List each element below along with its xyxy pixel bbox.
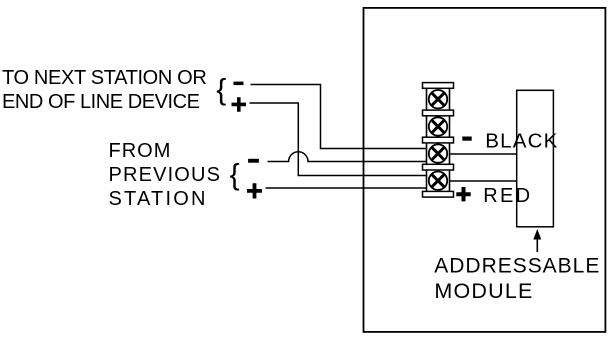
polarity plus (to next station) (232, 97, 247, 112)
arrow pointing to module (533, 229, 541, 252)
polarity minus (to next station) (234, 82, 244, 86)
svg-text:STATION: STATION (109, 188, 208, 210)
terminal block body 4 (427, 167, 450, 193)
svg-text:MODULE: MODULE (434, 279, 533, 303)
wire: from-previous plus -> terminal 4 (lower) (266, 187, 439, 189)
terminal block body 1 (427, 86, 450, 112)
svg-text:ADDRESSABLE: ADDRESSABLE (434, 254, 600, 277)
svg-text:PREVIOUS: PREVIOUS (109, 164, 222, 186)
terminal screw 1 (429, 90, 447, 108)
wire: to-next minus -> terminal 3 (upper) (251, 85, 439, 149)
polarity plus at terminal 4 (RED) (456, 187, 470, 201)
terminal separator bar 4 (423, 164, 454, 170)
terminal separator bar 1 (423, 83, 454, 89)
svg-text:RED: RED (483, 185, 532, 207)
svg-text:{: { (216, 74, 226, 107)
terminal screw 2 (429, 117, 447, 135)
terminal block body 3 (427, 140, 450, 166)
terminal separator bar 3 (423, 137, 454, 143)
svg-text:{: { (230, 158, 240, 191)
polarity minus (from previous) (248, 159, 259, 163)
svg-text:FROM: FROM (109, 140, 172, 162)
svg-text:BLACK: BLACK (485, 130, 558, 153)
wire: from-previous minus with hop over vertical -> terminal 3 (lower) (268, 152, 439, 162)
terminal screw 3 (429, 144, 447, 162)
terminal separator bar 2 (423, 110, 454, 116)
svg-text:END OF LINE DEVICE: END OF LINE DEVICE (2, 91, 200, 113)
wire: terminal 3 -> module (438, 153, 517, 155)
terminal block body 2 (427, 113, 450, 139)
addressable module body (517, 90, 554, 227)
polarity plus (from previous) (247, 183, 262, 198)
wire: to-next plus -> vertical -> terminal 4 (upper) (250, 103, 439, 176)
polarity minus at terminal 3 (BLACK) (462, 137, 471, 141)
wire: terminal 4 -> module (438, 180, 517, 182)
enclosure box (addressable module housing) (364, 8, 606, 332)
svg-text:TO NEXT STATION OR: TO NEXT STATION OR (2, 67, 206, 89)
terminal screw 4 (429, 172, 447, 190)
terminal separator bar 5 (423, 191, 454, 197)
